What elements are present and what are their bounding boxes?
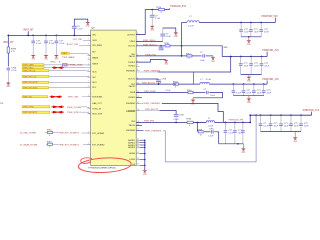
svg-text:VIN: VIN [92,35,96,37]
resistor R18 boot1 [165,45,170,47]
svg-text:GND: GND [143,174,148,176]
wire BOOT2 [136,78,158,80]
IC U1 left pin stubs and pin numbers [87,34,90,36]
svg-text:EXT_HOME1: EXT_HOME1 [92,133,105,135]
svg-text:0.1uF: 0.1uF [77,29,83,31]
wire PWR_SEL to pin [82,96,91,98]
capacitor C11 bank1 [250,23,252,30]
capacitor C14 bank2 [250,57,252,64]
capacitor C23 bootstrap3 [174,114,179,116]
svg-text:VSENSE2: VSENSE2 [126,103,136,105]
svg-text:1.0uF: 1.0uF [200,60,206,62]
capacitor C31 bank5 [290,115,292,124]
svg-text:OUTPUT: OUTPUT [127,34,136,36]
capacitor C9 snubber1 [201,55,202,57]
wire PH3 bus [136,121,187,123]
svg-text:1: 1 [88,58,89,60]
ground snubber1 [211,57,216,59]
wire 1V8 rail [209,83,267,85]
svg-text:BOOT3: BOOT3 [128,111,136,113]
svg-text:R?10: R?10 [187,90,192,92]
svg-text:0.1uF: 0.1uF [263,126,269,128]
svg-text:PACK1: PACK1 [129,55,136,58]
svg-text:MCU_SYN: MCU_SYN [92,114,102,116]
wire 3V3 rail [222,56,267,58]
svg-text:SDI: SDI [92,77,96,79]
svg-text:AGND4: AGND4 [128,146,136,149]
svg-text:PWR_SPI_CLK: PWR_SPI_CLK [23,76,37,78]
svg-text:10uF: 10uF [274,126,279,128]
junction dot bootstrap2 [158,83,160,85]
junction dot out3 gnd [237,143,239,145]
svg-text:VSENSE1: VSENSE1 [126,71,136,73]
svg-text:SGN: SGN [92,40,97,42]
wire vsense1 drop [193,72,195,84]
svg-text:4.7uF: 4.7uF [11,70,17,72]
wire VREG pin [136,40,163,42]
svg-text:GND: GND [247,102,252,104]
svg-text:PWR_EXT_HOME#2: PWR_EXT_HOME#2 [58,144,80,146]
svg-text:PWR_CLK6M: PWR_CLK6M [67,107,81,109]
junction dot boot1 [160,45,162,47]
svg-text:0.1uF: 0.1uF [166,90,172,92]
resistor highlighted red row 2 [51,106,53,108]
wire 5V0 rail up [274,18,276,23]
node PWR_SPI_MOSI flag [22,81,49,83]
svg-text:10uF: 10uF [257,93,262,95]
wire VREF row [44,64,63,66]
wire 1V2 rail [250,114,311,116]
svg-text:EXT_HOME2: EXT_HOME2 [92,144,105,146]
wire 1V8 rail up [266,81,268,85]
svg-text:PACK3: PACK3 [129,124,136,127]
wire VIN rail [8,34,90,36]
ground bank3 [248,96,250,99]
node PWR_SPI_CLK flag [22,75,49,77]
wire PH2B [136,92,188,94]
svg-text:34: 34 [137,146,139,148]
svg-text:PWR_VREF: PWR_VREF [23,65,34,67]
wire PWR_SYNC to pin [81,107,90,109]
capacitor C17 bootstrap2 [158,78,160,81]
wire 3V3 rail up [266,52,268,57]
capacitor C18 bank3 [232,84,234,91]
svg-text:SW1: SW1 [224,47,228,49]
wire BOOT1 pin [136,45,165,47]
capacitor C28 bank5 [260,115,262,124]
svg-text:PWR/VDD_5V0: PWR/VDD_5V0 [261,16,278,18]
capacitor C12 bank1 [260,23,262,30]
ground bank1 [248,37,250,41]
svg-text:PWR/VDD_3V3: PWR/VDD_3V3 [262,50,279,52]
wire bank3 bottom rail [233,95,263,97]
svg-text:37: 37 [137,164,139,166]
svg-text:DAE_OUT: DAE_OUT [92,102,102,105]
svg-text:TPS6586290-RHBR (QFN32): TPS6586290-RHBR (QFN32) [88,167,116,169]
resistor R12 series home2 [46,143,48,145]
svg-text:A-OUT_RST: A-OUT_RST [67,43,80,46]
svg-text:SYNC_IN: SYNC_IN [92,108,101,110]
wire bottom loop [163,115,256,162]
svg-text:10uF: 10uF [246,93,251,95]
inductor L2 [200,82,210,84]
node PWR_SPI_MISO flag [22,87,49,89]
capacitor C24 snubber3 [210,131,211,133]
wire WAKE flag to pin [69,53,91,55]
capacitor C32 input bypass [45,35,47,41]
ground top of IC [85,22,90,24]
svg-text:4.7uH: 4.7uH [206,79,212,81]
wire VREG cap to gnd [163,28,176,32]
svg-text:PWR/VDD_1V8: PWR/VDD_1V8 [262,79,279,81]
svg-text:0: 0 [189,58,190,60]
wire snubber1 mid [192,55,201,57]
svg-text:GND: GND [164,64,169,66]
junction dots 3V3 rail [230,56,232,58]
wire PWR_SPI_CS to pin [49,70,91,73]
wire home2 to pin [83,144,91,146]
svg-text:1k: 1k [59,62,61,64]
svg-text:0.1uF: 0.1uF [159,50,165,52]
svg-text:C?28: C?28 [179,115,184,117]
capacitor C27 out3 [242,122,244,130]
svg-text:GND: GND [211,61,216,63]
svg-text:4.7uF: 4.7uF [49,43,55,45]
svg-text:GND: GND [150,30,155,32]
svg-text:2: 2 [137,69,138,71]
junction dots 1V2 out [225,122,227,124]
capacitor C13 bank2 [240,57,242,64]
svg-text:0: 0 [189,125,190,127]
svg-text:PWR/LED_5V0: PWR/LED_5V0 [170,6,187,8]
svg-text:PWR_WAKE: PWR_WAKE [62,56,75,59]
svg-text:GND: GND [247,81,252,83]
svg-text:1.0uH: 1.0uH [208,125,214,127]
svg-text:R?34: R?34 [173,82,178,84]
svg-text:PGND2: PGND2 [128,65,136,67]
ground bank2 [248,75,250,77]
capacitor C29 bank5 [270,115,272,124]
svg-text:10uF: 10uF [294,126,299,128]
inductor L3 [206,121,214,123]
IC U1 right pin stubs and pin numbers [136,34,139,36]
junction dot bootstrap3 [175,122,177,124]
svg-text:R?16: R?16 [157,7,162,9]
inductor L1 [187,21,199,23]
svg-text:1.0uF: 1.0uF [210,95,216,97]
capacitor C31 input bypass [32,35,34,41]
svg-text:VIN_RATE: VIN_RATE [92,44,102,47]
svg-text:GND: GND [247,44,252,46]
wire PGND1 [136,60,166,63]
op-amp U1 PMIC body [91,30,137,165]
svg-text:PH2B: PH2B [130,92,136,94]
svg-text:35: 35 [137,152,139,154]
wire PACK3 stub [136,125,142,127]
wire below C16 [7,72,9,83]
svg-text:2.2uH: 2.2uH [188,26,194,28]
junction dots PH1 [181,45,183,47]
capacitor C5 top bypass [72,25,77,27]
wire VSENSE2 [136,102,143,104]
svg-text:BOOT1: BOOT1 [128,46,136,48]
wire 1V2 rail up [311,112,313,116]
resistor R8 vertical [7,47,9,53]
wire R16 to label [165,8,170,9]
wire AGND pins to bus [140,139,145,141]
svg-text:C?28: C?28 [161,79,166,81]
capacitor C20 bank3 [253,84,255,91]
svg-text:PW: PW [0,103,3,105]
svg-text:PWR_SYNC: PWR_SYNC [23,107,34,109]
svg-text:PWR_SEL: PWR_SEL [23,97,32,99]
wire 1V2 out [215,121,251,123]
capacitor C25 out3 [224,122,226,130]
capacitor C7 VREG [162,36,164,41]
svg-text:10uF: 10uF [244,32,249,34]
svg-text:0: 0 [161,12,162,14]
resistor R28 snubber3 [198,131,203,133]
resistor R10b snubber2 [188,91,193,93]
svg-text:PWR_SYNC2: PWR_SYNC2 [67,112,81,114]
junction dots on VIN rail [27,35,29,37]
svg-text:0: 0 [49,147,50,149]
svg-text:WAKE: WAKE [62,52,68,55]
wire snubber1 end [206,55,213,57]
wire bus3 mid [193,121,206,123]
wire snubber3 drop [196,122,198,131]
svg-text:PWR_VREF: PWR_VREF [71,65,84,67]
svg-text:R?18: R?18 [164,43,169,45]
wire below R8 [7,53,9,66]
capacitor C16 left [7,66,9,68]
wire BOOT3 [136,110,159,112]
wire boot1 to bank [170,46,222,57]
node PWR_VREF flag [22,64,44,66]
svg-text:R?34: R?34 [187,118,192,120]
svg-text:C?: C? [204,89,206,91]
wire PWR_SPI_MOSI to pin [49,81,91,83]
capacitor C32 bank5 [300,115,302,124]
svg-text:R?28: R?28 [198,129,203,131]
svg-text:R?10: R?10 [186,53,191,55]
svg-text:0.1uF: 0.1uF [166,36,172,38]
resistor R11 series home1 [45,132,48,134]
junction dots 1V8 rail [233,83,235,85]
wire bank5 bottom rail [261,131,302,133]
svg-text:10uF: 10uF [267,93,272,95]
wire PWR_MCUSYN to pin [81,112,90,114]
svg-text:PGND1: PGND1 [128,62,136,64]
ground AGND bus [142,170,147,172]
wire snubber3 mid [204,131,211,133]
capacitor C33 input bypass [55,35,57,41]
wire snubber2 mid [193,92,205,94]
wire snubber2 end [193,93,223,98]
wire 5V0 rail [199,22,275,24]
svg-text:10uF: 10uF [244,66,249,68]
svg-text:R?10: R?10 [47,142,52,144]
svg-text:PWR_VRTC: PWR_VRTC [23,68,34,70]
svg-text:VSENSE3: VSENSE3 [126,130,136,132]
svg-text:GND: GND [31,59,36,61]
svg-text:PWR_VSENSE2: PWR_VSENSE2 [144,103,161,105]
junction dots 1V2 rail [249,114,251,116]
ground snubber2 [192,98,194,100]
capacitor C6 on LED rail [151,10,153,16]
svg-text:GND: GND [174,36,179,38]
wire PWR_SPI_MISO to pin [49,86,91,89]
capacitor C10 bank1 [240,23,242,30]
node PWR_VRTC flag [22,67,44,69]
wire 1V2 rail riser [249,115,251,122]
svg-text:DGND: DGND [129,159,135,161]
wire bus2 mid [179,83,200,85]
capacitor C22 snubber2 [205,92,206,94]
node PWR_MCUSYN flag [22,111,50,113]
svg-text:GND: GND [54,59,59,61]
svg-text:PWR/VDD_1V2: PWR/VDD_1V2 [303,110,320,112]
wire out3 bottom rail [219,143,244,145]
svg-text:PWR_SPI_MOSI: PWR_SPI_MOSI [23,82,38,84]
resistor R16 series LED [159,9,165,11]
ground VREG [173,32,178,34]
svg-text:0: 0 [175,86,176,88]
svg-text:PWR/VDD_RF: PWR/VDD_RF [229,120,244,122]
svg-text:10uF: 10uF [236,93,241,95]
svg-text:GND: GND [6,86,11,88]
svg-text:OUT_RST: OUT_RST [73,39,83,41]
resistor highlighted red row 1 [50,96,52,98]
svg-text:WAKE: WAKE [92,56,98,59]
node PWR_SYNC flag [22,106,50,108]
svg-text:GND: GND [44,59,49,61]
wire AGND bus vertical [144,140,146,170]
svg-text:BOOT2: BOOT2 [128,78,136,80]
svg-text:PWR_EXT_HOME#1: PWR_EXT_HOME#1 [58,133,80,135]
svg-text:4.7uF: 4.7uF [155,18,161,20]
svg-text:GND: GND [241,152,246,154]
svg-text:SDO: SDO [92,82,97,84]
capacitor C21 bank3 [263,84,265,91]
capacitor C8 bootstrap1 [160,46,162,47]
svg-text:MODE/SEL: MODE/SEL [92,97,103,99]
svg-text:10uF: 10uF [304,126,309,128]
node PWR_SEL flag [22,96,48,98]
capacitor C19 bank3 [243,84,245,91]
node PWR_WAKE flag [61,52,69,54]
svg-text:NRES: NRES [92,64,98,66]
wire PH1 [136,55,187,57]
svg-text:VBAT_MT: VBAT_MT [23,29,34,32]
svg-text:4.7uF: 4.7uF [59,43,65,45]
wire OUTPUT pin up [136,10,158,35]
wire home1 to pin [82,132,91,134]
svg-text:GND: GND [86,26,91,28]
svg-text:47uF: 47uF [264,32,269,34]
svg-text:10uF: 10uF [264,66,269,68]
wire bank2 bottom rail [241,74,262,76]
svg-text:V1_BKAK_HOME: V1_BKAK_HOME [20,143,38,146]
svg-text:10: 10 [200,134,202,136]
svg-text:AGND: AGND [129,152,135,155]
svg-text:PWR_MCUSYN: PWR_MCUSYN [23,112,37,114]
svg-text:R?10: R?10 [47,130,52,132]
ground under C6 [150,26,155,28]
svg-text:VREG: VREG [130,41,136,43]
svg-text:GND: GND [293,141,298,143]
wire PH1 to inductor riser [181,23,183,56]
wire bank1 bottom rail [241,36,261,38]
wire PWR_SPI_CLK to pin [49,75,91,78]
svg-text:SCS: SCS [92,71,97,73]
wire VSENSE1 [136,71,158,73]
junction dots 5V0 rail [240,22,242,24]
svg-text:GPIO_SEL: GPIO_SEL [68,97,80,99]
resistor R10a snubber1 [187,55,192,57]
capacitor C15 bank2 [261,57,263,64]
svg-text:10uF: 10uF [284,126,289,128]
svg-text:PWR_VSENSE3: PWR_VSENSE3 [145,130,162,132]
svg-text:0: 0 [49,135,50,137]
svg-text:10uF: 10uF [254,32,259,34]
svg-text:1.0uF: 1.0uF [208,136,214,138]
ground out3 [242,144,244,149]
wire inductor1 left [182,22,187,24]
resistor highlighted red VRTC [44,67,52,69]
junction dot output top [151,9,153,11]
red annotation ellipse [78,157,131,174]
wire top bypass [74,19,88,26]
resistor highlighted red row 3 [51,111,53,113]
resistor R34 series bus2 [174,83,179,85]
wire snubber3 end [214,132,219,144]
svg-text:PWR_SPI_MISO: PWR_SPI_MISO [23,88,38,90]
resistor R10 series VREF [63,64,68,66]
svg-text:PGND3: PGND3 [128,97,136,99]
ground bank5 [294,132,296,138]
svg-text:C?: C? [200,52,202,54]
svg-text:36: 36 [137,158,139,160]
svg-text:V1_KBD_HOME: V1_KBD_HOME [20,133,37,135]
resistor R35 series bus3 [187,121,193,123]
wire PH2 bus [136,83,176,85]
wire left branch vertical [7,35,9,47]
svg-text:4.7uF: 4.7uF [36,43,42,45]
svg-text:PACK2: PACK2 [129,85,136,88]
wire PGND3 stub [136,96,142,98]
svg-text:C?16: C?16 [209,128,214,130]
junction dot bank1 gnd [248,36,250,38]
svg-text:PWR_SPI_CS: PWR_SPI_CS [23,71,36,73]
svg-text:0.1uF: 0.1uF [173,119,179,121]
svg-text:MO: MO [92,51,96,53]
svg-text:10uF: 10uF [254,66,259,68]
ground below C16 [6,83,11,85]
svg-text:3: 3 [137,65,138,67]
capacitor C26 out3 [234,122,236,130]
capacitor C30 bank5 [280,115,282,124]
ground PGND1 [164,60,169,62]
node PWR_SPI_CS flag [22,70,49,72]
junction dot snubber3 tap [197,122,199,124]
